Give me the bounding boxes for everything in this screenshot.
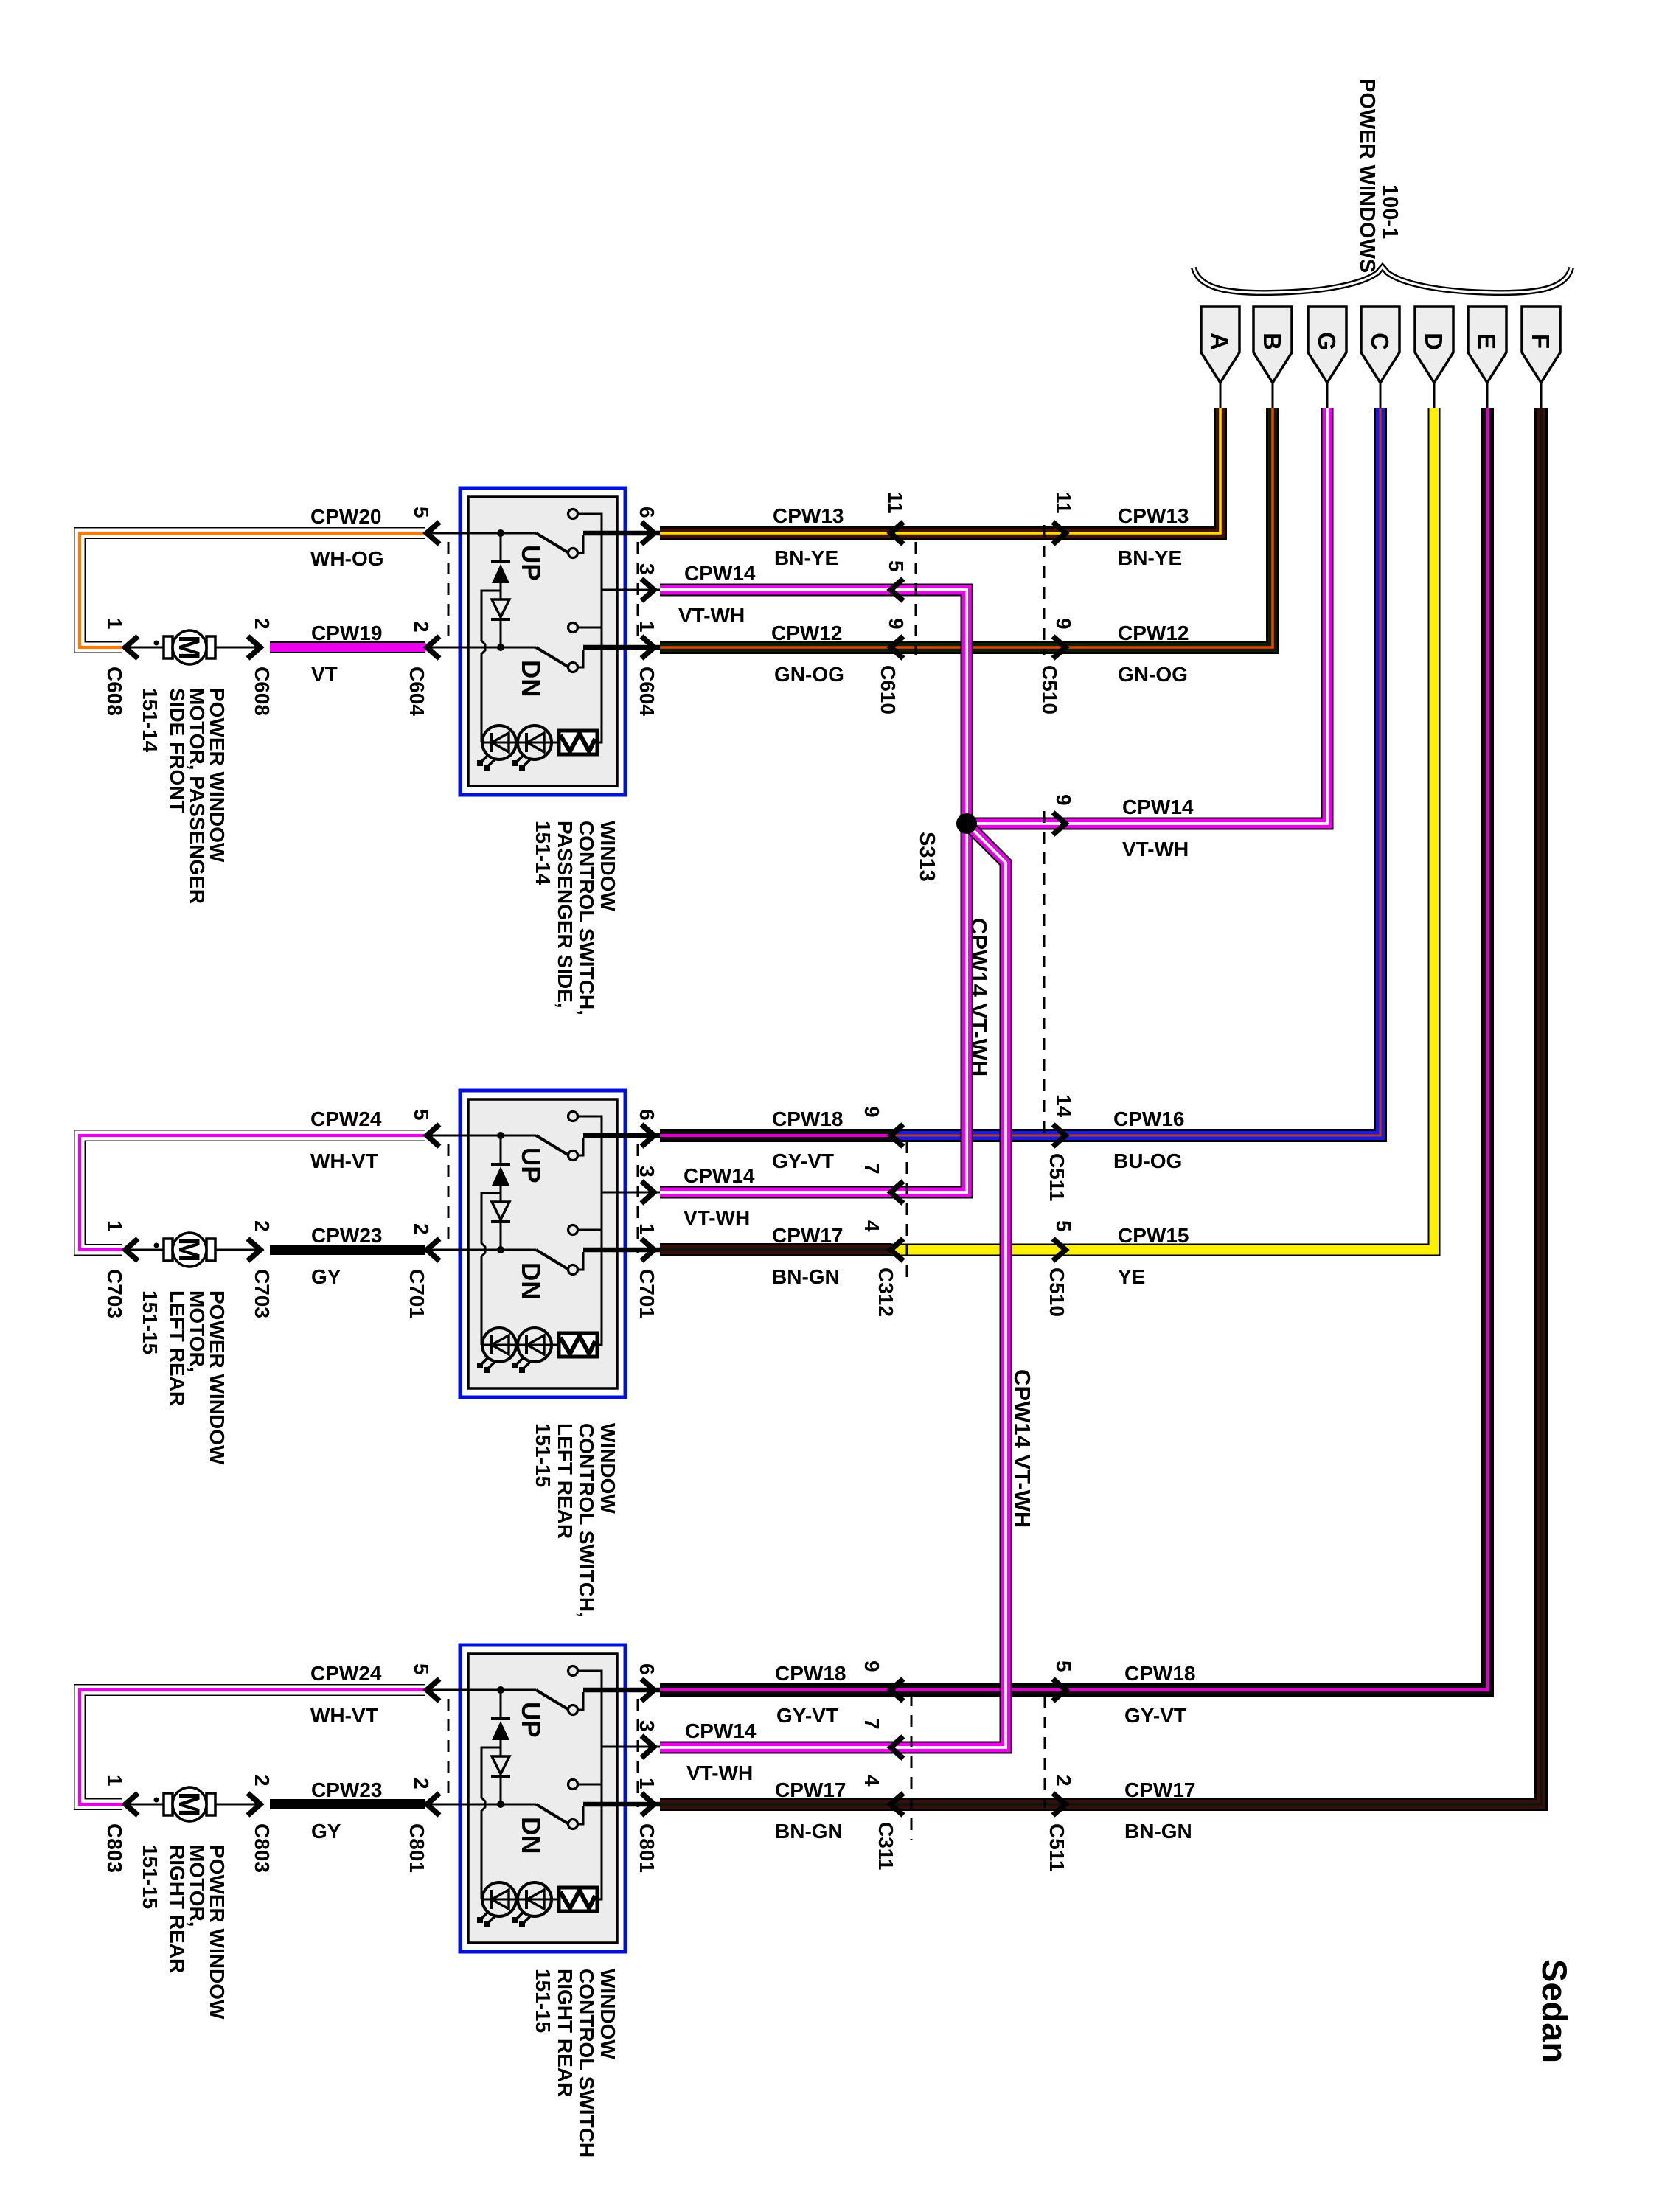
svg-text:2: 2 [410,1223,433,1235]
svg-text:2: 2 [251,1775,274,1787]
pin 2 C604 [410,621,439,658]
label C801 left [406,1823,428,1873]
wire CPW14 VT-WH (S313 to pin3 block2) [660,824,967,1192]
pin 6 C604 [636,507,658,544]
label BN-YE wire [774,546,838,569]
svg-text:WINDOW: WINDOW [597,1423,619,1514]
svg-text:M: M [173,635,205,659]
svg-text:CPW17: CPW17 [775,1778,846,1801]
label C312 [874,1267,897,1317]
svg-text:BN-GN: BN-GN [772,1265,840,1288]
svg-text:CPW13: CPW13 [773,504,844,527]
svg-text:PASSENGER SIDE,: PASSENGER SIDE, [554,821,577,1009]
svg-text:GY-VT: GY-VT [776,1704,838,1727]
wire CPW24 WH-VT (motor loop 2) [80,1135,425,1250]
svg-text:5: 5 [410,507,433,518]
pin 11 C510 [1052,492,1075,544]
label BU-OG wire [1113,1150,1182,1172]
wire CPW12 GN-OG (pin1 block1 to node B) [660,408,1273,647]
svg-text:CPW24: CPW24 [310,1662,382,1685]
svg-text:5: 5 [1052,1220,1075,1232]
pin 9 C610 [885,618,908,658]
svg-text:C511: C511 [1046,1823,1068,1871]
svg-text:RIGHT REAR: RIGHT REAR [166,1845,189,1973]
pin 7 C312 [860,1163,903,1203]
label CPW18 wire [1124,1662,1195,1685]
label window control switch right rear 151-15 [532,1969,619,2157]
pin 1 C604 [636,621,658,658]
svg-text:S313: S313 [915,832,939,882]
pin 9 C510 [1052,618,1075,658]
label CPW15 wire [1118,1224,1189,1247]
pin 1 C801 [636,1778,658,1815]
label CPW14 wire [684,1164,755,1187]
wire CPW16 BU-OG (C312 to node C) [889,408,1380,1135]
svg-text:M: M [173,1237,205,1262]
label C701 left [406,1269,428,1318]
svg-text:C604: C604 [406,667,428,716]
svg-text:CPW23: CPW23 [311,1224,382,1247]
pin 7 C311 [860,1718,903,1759]
brace 100-1 POWER WINDOWS [1194,267,1571,293]
label WH-OG wire [310,547,384,570]
svg-text:C604: C604 [636,667,658,716]
connector C511 dashed line upper [1043,811,1046,1136]
label CPW19 wire [311,622,382,644]
wire CPW23 GY (motor3 to pin2) [270,1799,425,1809]
svg-text:C312: C312 [874,1267,897,1317]
label CPW14 wire [684,562,756,585]
svg-text:C: C [1366,333,1394,350]
svg-text:BN-YE: BN-YE [774,546,838,569]
svg-text:CPW14: CPW14 [684,1164,755,1187]
svg-text:11: 11 [1052,492,1075,514]
pin 5 C801 [410,1663,439,1701]
pin 3 C604 [636,563,658,601]
node A (grid tag) [1201,307,1239,410]
wire CPW24 WH-VT (motor loop 3) [80,1690,425,1804]
connector C801 dashed lines [448,1699,638,1807]
label window control switch passenger side 151-14 [532,821,619,1015]
svg-text:GY-VT: GY-VT [772,1150,834,1172]
svg-text:YE: YE [1118,1265,1145,1288]
svg-text:9: 9 [860,1106,883,1118]
label C511 [1046,1153,1068,1201]
label Sedan [1535,1959,1574,2063]
svg-text:C801: C801 [636,1823,658,1873]
splice S313 [956,813,977,834]
label GY wire [311,1820,341,1843]
pin 4 C311 [860,1775,903,1815]
svg-text:3: 3 [636,1720,658,1732]
svg-text:C701: C701 [636,1269,658,1318]
pin 14 C511 (CPW16) [1052,1094,1075,1147]
label 100-1 [1378,184,1402,239]
wire CPW15 YE (C312 to node D) [889,408,1434,1250]
svg-text:WINDOW: WINDOW [597,1969,619,2059]
label C610 [877,665,900,714]
label CPW18 wire [772,1107,843,1130]
wire CPW14 VT-WH (S313 to pin3 block3) [660,824,1006,1747]
svg-text:UP: UP [516,1702,545,1738]
wire CPW20 WH-OG (motor loop 1) [80,533,425,647]
wire CPW19 VT (motor1 to pin2) [270,641,425,653]
label CPW14 VT-WH vertical left [966,918,992,1077]
svg-text:C608: C608 [103,667,126,716]
svg-text:C803: C803 [103,1823,126,1873]
label CPW20 wire [310,505,381,528]
node E (grid tag) [1468,307,1506,410]
wire CPW14 VT-WH (pin3 block1 to splice S313) [660,590,967,824]
label VT-WH wire [678,604,745,627]
svg-text:GN-OG: GN-OG [1118,663,1188,686]
svg-text:151-14: 151-14 [532,821,554,886]
pin 2 C608 [248,618,274,658]
svg-text:F: F [1527,334,1554,349]
pin 1 C703 [103,1220,138,1261]
svg-text:CPW24: CPW24 [310,1107,382,1130]
label C801 right [636,1823,658,1873]
connector C311 dashed line [911,1694,913,1840]
pin 5 C701 [410,1109,439,1147]
wire CPW17 BN-GN (pin1 block2 to C312) [660,1243,891,1256]
svg-text:LEFT REAR: LEFT REAR [166,1290,189,1406]
label C703 left [103,1269,126,1318]
label C608 left [103,667,126,716]
label GY wire [311,1265,341,1288]
svg-text:GY: GY [311,1265,341,1288]
svg-text:9: 9 [860,1660,883,1672]
svg-text:5: 5 [410,1663,433,1675]
pin 9 C511 (CPW14 branch) [1052,794,1075,835]
label CPW23 wire [311,1778,382,1801]
svg-text:151-14: 151-14 [139,688,161,753]
wire CPW13 BN-YE (pin6 block1 to node A) [660,408,1220,533]
label VT-WH wire [686,1761,753,1784]
wire CPW17 BN-GN (pin1 block3 to node F) [660,408,1541,1804]
label C803 right [251,1823,274,1873]
svg-text:CPW12: CPW12 [771,622,842,644]
label CPW16 wire [1113,1107,1184,1130]
svg-text:BU-OG: BU-OG [1113,1150,1182,1172]
svg-text:3: 3 [636,1166,658,1178]
svg-text:A: A [1206,333,1234,350]
svg-text:WH-VT: WH-VT [310,1704,378,1727]
svg-text:CPW14 VT-WH: CPW14 VT-WH [1009,1369,1035,1528]
label CPW14 VT-WH vertical right [1009,1369,1035,1528]
svg-text:GY: GY [311,1820,341,1843]
svg-text:VT-WH: VT-WH [686,1761,753,1784]
label CPW13 wire [773,504,844,527]
svg-text:DN: DN [516,1262,545,1300]
connector C701 dashed lines [448,1144,638,1253]
svg-text:DN: DN [516,660,545,698]
label CPW14 wire [685,1719,757,1742]
svg-text:151-15: 151-15 [532,1969,554,2033]
label GY-VT wire [776,1704,838,1727]
svg-text:Sedan: Sedan [1535,1959,1574,2063]
svg-text:RIGHT REAR: RIGHT REAR [554,1969,577,2097]
svg-text:G: G [1313,332,1340,351]
svg-text:WINDOW: WINDOW [597,821,619,911]
svg-text:WH-VT: WH-VT [310,1150,378,1172]
svg-text:BN-YE: BN-YE [1118,546,1182,569]
label power window motor left rear 151-15 [139,1290,229,1465]
svg-text:2: 2 [410,1778,433,1790]
pin 6 C701 [636,1109,658,1147]
svg-text:CONTROL SWITCH,: CONTROL SWITCH, [575,821,598,1015]
svg-text:CONTROL SWITCH: CONTROL SWITCH [575,1969,598,2157]
label CPW24 wire [310,1662,382,1685]
svg-text:151-15: 151-15 [139,1290,161,1354]
label BN-GN wire [775,1820,843,1843]
label GN-OG wire [774,663,844,686]
svg-text:1: 1 [103,618,126,630]
svg-text:VT-WH: VT-WH [684,1206,750,1229]
svg-text:C510: C510 [1038,665,1061,714]
svg-text:6: 6 [636,1663,658,1675]
label CPW12 wire [1118,622,1189,644]
pin 5 C610 [885,560,908,601]
svg-text:CPW23: CPW23 [311,1778,382,1801]
label power window motor passenger side front 151-14 [139,688,229,904]
svg-text:C801: C801 [406,1823,428,1873]
pin 5 C510 (CPW15) [1052,1220,1075,1261]
label BN-GN wire [1124,1820,1192,1843]
label C604 left [406,667,428,716]
svg-text:GN-OG: GN-OG [774,663,844,686]
label CPW18 wire [775,1662,846,1685]
svg-text:CPW15: CPW15 [1118,1224,1189,1247]
wire CPW23 GY (motor2 to pin2) [270,1245,425,1255]
svg-text:C610: C610 [877,665,900,714]
label BN-YE wire [1118,546,1182,569]
svg-text:UP: UP [516,1147,545,1183]
svg-text:CPW18: CPW18 [775,1662,846,1685]
pin 11 C610 [884,492,907,544]
svg-text:1: 1 [103,1775,126,1787]
svg-text:CPW17: CPW17 [772,1224,843,1247]
svg-text:C803: C803 [251,1823,274,1873]
svg-text:D: D [1420,333,1447,350]
svg-text:C311: C311 [874,1822,897,1870]
svg-text:WH-OG: WH-OG [310,547,384,570]
svg-text:2: 2 [251,618,274,630]
svg-text:2: 2 [251,1220,274,1232]
node F (grid tag) [1522,307,1560,410]
svg-text:DN: DN [516,1817,545,1854]
svg-text:VT-WH: VT-WH [678,604,745,627]
svg-text:6: 6 [636,507,658,518]
label CPW24 wire [310,1107,382,1130]
svg-text:CPW14: CPW14 [685,1719,757,1742]
node C (grid tag) [1361,307,1399,410]
svg-text:SIDE FRONT: SIDE FRONT [166,688,189,813]
label GN-OG wire [1118,663,1188,686]
label S313 [915,832,939,882]
svg-text:VT: VT [311,663,338,686]
svg-text:5: 5 [885,560,908,572]
label window control switch left rear 151-15 [532,1423,619,1618]
label CPW17 wire [1124,1778,1195,1801]
svg-text:5: 5 [410,1109,433,1121]
wire CPW18 GY-VT (pin6 block3 to node E) [660,408,1487,1690]
svg-text:CPW14: CPW14 [1122,796,1194,818]
connector C312 dashed line [906,1141,908,1281]
label CPW17 wire [775,1778,846,1801]
svg-text:CPW17: CPW17 [1124,1778,1195,1801]
svg-text:6: 6 [636,1109,658,1121]
label power window motor right rear 151-15 [139,1845,229,2020]
connector C610 dashed line [915,542,917,655]
svg-text:CPW14: CPW14 [684,562,756,585]
svg-text:C510: C510 [1046,1267,1068,1317]
svg-text:151-15: 151-15 [139,1845,161,1909]
svg-text:14: 14 [1052,1094,1075,1118]
svg-text:E: E [1473,333,1500,349]
window control switch U1 (passenger side front) [427,488,660,795]
label CPW13 wire [1118,504,1189,527]
svg-text:1: 1 [636,1778,658,1790]
pin 6 C801 [636,1663,658,1701]
svg-text:1: 1 [636,621,658,633]
pin 5 C604 [410,507,439,544]
connector C510 dashed line [1043,525,1046,655]
label VT-WH wire [1122,838,1189,860]
pin 2 C701 [410,1223,439,1261]
motor M3 (power window motor right rear) [129,1787,262,1821]
wire CPW14 VT-WH (S313 to node G) [967,408,1327,824]
svg-text:11: 11 [884,492,907,514]
window control switch U3 (right rear) [427,1645,660,1952]
pin 1 C701 [636,1223,658,1261]
svg-text:CPW18: CPW18 [1124,1662,1195,1685]
pin 2 C703 [248,1220,274,1261]
label GY-VT wire [772,1150,834,1172]
pin 9 C312 [860,1106,903,1147]
svg-text:CPW18: CPW18 [772,1107,843,1130]
svg-text:B: B [1259,333,1286,350]
svg-text:4: 4 [860,1775,883,1787]
label WH-VT wire [310,1704,378,1727]
svg-text:9: 9 [1052,794,1075,806]
connector C511 dashed line block3 [1044,1696,1046,1808]
svg-text:3: 3 [636,563,658,575]
label POWER WINDOWS [1355,78,1379,273]
svg-text:CPW20: CPW20 [310,505,381,528]
node D (grid tag) [1415,307,1453,410]
svg-text:C701: C701 [406,1269,428,1318]
node G (grid tag) [1308,307,1346,410]
label C701 right [636,1269,658,1318]
label VT wire [311,663,338,686]
svg-text:BN-GN: BN-GN [775,1820,843,1843]
node B (grid tag) [1253,307,1292,410]
pin 3 C701 [636,1166,658,1203]
window control switch U2 (left rear) [427,1091,660,1397]
label BN-GN wire [772,1265,840,1288]
label C511 block3 [1046,1823,1068,1871]
svg-text:9: 9 [885,618,908,630]
svg-text:CPW19: CPW19 [311,622,382,644]
pin 2 C511 (CPW17) [1052,1775,1075,1815]
svg-text:BN-GN: BN-GN [1124,1820,1192,1843]
svg-text:UP: UP [516,545,545,581]
svg-text:CPW13: CPW13 [1118,504,1189,527]
svg-text:9: 9 [1052,618,1075,630]
connector C604 dashed lines [448,542,638,650]
label GY-VT wire [1124,1704,1186,1727]
svg-text:CPW12: CPW12 [1118,622,1189,644]
svg-text:GY-VT: GY-VT [1124,1704,1186,1727]
svg-text:C703: C703 [251,1269,274,1318]
label WH-VT wire [310,1150,378,1172]
pin 1 C608 [103,618,138,658]
svg-text:1: 1 [636,1223,658,1235]
svg-text:C608: C608 [251,667,274,716]
label CPW23 wire [311,1224,382,1247]
label C803 left [103,1823,126,1873]
pin 3 C801 [636,1720,658,1758]
pin 2 C803 [248,1775,274,1815]
svg-text:100-1: 100-1 [1378,184,1402,239]
svg-text:M: M [173,1792,205,1816]
svg-text:7: 7 [860,1163,883,1175]
label C510 (CPW15) [1046,1267,1068,1317]
pin 2 C801 [410,1778,439,1815]
label VT-WH wire [684,1206,750,1229]
svg-text:CONTROL SWITCH,: CONTROL SWITCH, [575,1423,598,1618]
pin 9 C311 [860,1660,903,1701]
label C510 [1038,665,1061,714]
pin 4 C312 [860,1220,903,1261]
svg-text:CPW14 VT-WH: CPW14 VT-WH [966,918,992,1077]
svg-text:4: 4 [860,1220,883,1232]
svg-text:VT-WH: VT-WH [1122,838,1189,860]
svg-text:C703: C703 [103,1269,126,1318]
pin 1 C803 [103,1775,138,1815]
svg-text:5: 5 [1052,1660,1075,1672]
svg-text:151-15: 151-15 [532,1423,554,1487]
svg-text:CPW16: CPW16 [1113,1107,1184,1130]
label CPW14 wire [1122,796,1194,818]
svg-text:LEFT REAR: LEFT REAR [554,1423,577,1539]
label CPW17 wire [772,1224,843,1247]
label YE wire [1118,1265,1145,1288]
label C608 right [251,667,274,716]
svg-text:2: 2 [1052,1775,1075,1787]
label C703 right [251,1269,274,1318]
svg-text:2: 2 [410,621,433,633]
label C604 right [636,667,658,716]
svg-text:C511: C511 [1046,1153,1068,1201]
label C311 [874,1822,897,1870]
svg-text:1: 1 [103,1220,126,1232]
label CPW12 wire [771,622,842,644]
motor M2 (power window motor left rear) [129,1233,262,1267]
svg-text:7: 7 [860,1718,883,1730]
motor M1 (power window motor passenger side front) [129,630,262,664]
svg-text:POWER WINDOWS: POWER WINDOWS [1355,78,1379,273]
wire CPW18 GY-VT (pin6 block2 to C312) [660,1129,891,1142]
pin 5 C511 (CPW18) [1052,1660,1075,1701]
